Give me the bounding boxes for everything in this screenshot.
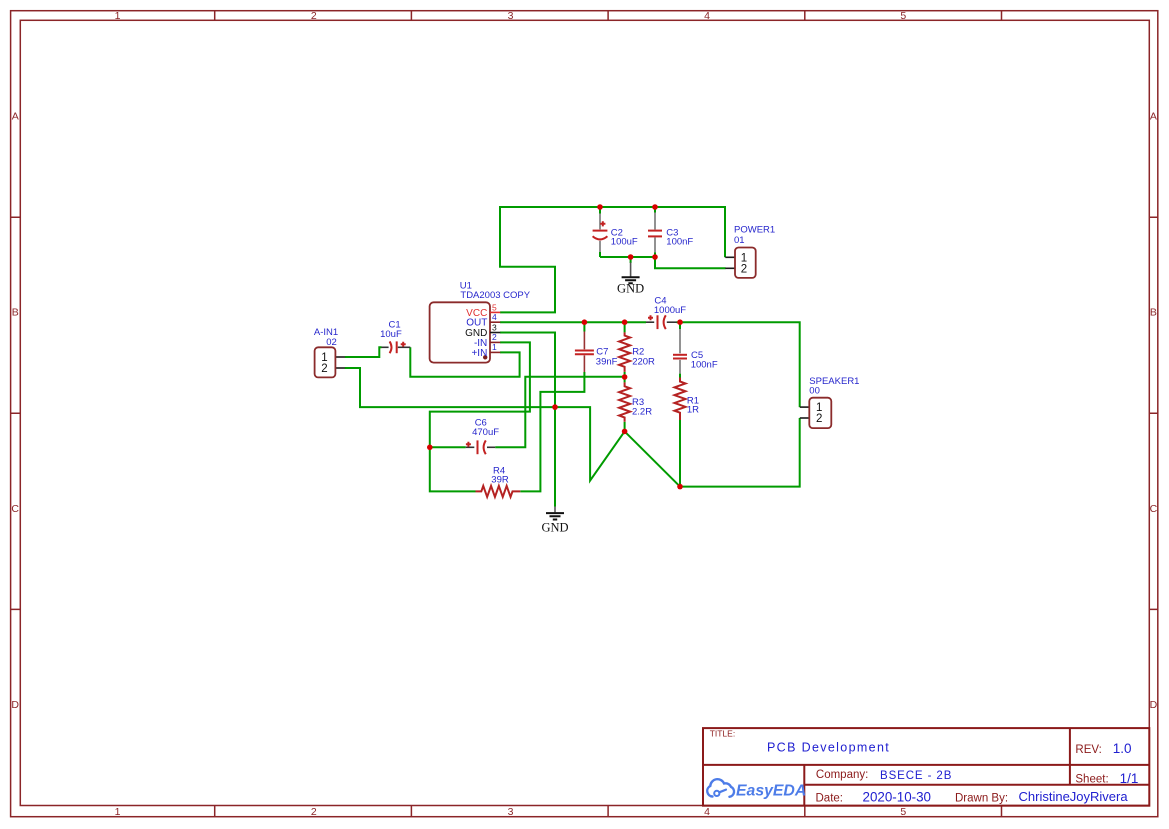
resistor R4 39R bbox=[476, 486, 521, 497]
wire diagonal R3 bottom to bottom node bbox=[625, 431, 680, 486]
junction dot GND rail bbox=[552, 404, 558, 410]
junction dot C3 top bbox=[652, 204, 658, 210]
U1 pin 2 lead -IN bbox=[490, 341, 500, 343]
svg-text:PCB Development: PCB Development bbox=[767, 740, 890, 754]
capacitor C3 100nF bbox=[648, 213, 662, 253]
svg-text:GND: GND bbox=[541, 521, 568, 535]
svg-text:TITLE:: TITLE: bbox=[710, 729, 736, 739]
wire OUT net U1 pin4 to C4 left bbox=[500, 321, 646, 323]
svg-text:01: 01 bbox=[734, 235, 745, 246]
IC U1 TDA2003 box bbox=[430, 302, 490, 362]
ground symbol GND bottom bbox=[541, 507, 568, 535]
svg-text:B: B bbox=[1150, 307, 1157, 319]
svg-text:02: 02 bbox=[326, 337, 337, 348]
svg-text:1.0: 1.0 bbox=[1113, 741, 1132, 756]
svg-text:D: D bbox=[11, 699, 19, 711]
ground symbol GND top bbox=[617, 263, 644, 296]
junction dot C4 right bbox=[677, 319, 683, 325]
title block outline bbox=[703, 728, 1149, 806]
svg-text:1: 1 bbox=[115, 806, 121, 818]
svg-text:5: 5 bbox=[900, 10, 906, 22]
svg-text:1: 1 bbox=[492, 342, 497, 352]
svg-text:4: 4 bbox=[704, 806, 710, 818]
wire VCC net U1 pin5 loop to top rail and POWER1 pin1 bbox=[500, 207, 725, 312]
resistor R3 2.2R bbox=[619, 382, 630, 421]
U1 pin 5 lead VCC bbox=[490, 311, 500, 313]
junction dot output bottom node bbox=[677, 484, 683, 490]
svg-text:A: A bbox=[12, 111, 19, 123]
capacitor C7 39nF bbox=[575, 332, 594, 373]
svg-text:BSECE - 2B: BSECE - 2B bbox=[880, 770, 952, 782]
title block row line 2 bbox=[804, 784, 1149, 786]
svg-text:2: 2 bbox=[492, 332, 497, 342]
svg-text:10uF: 10uF bbox=[380, 329, 402, 340]
svg-text:2: 2 bbox=[321, 363, 327, 375]
svg-text:2.2R: 2.2R bbox=[632, 407, 652, 418]
svg-text:Drawn By:: Drawn By: bbox=[955, 792, 1008, 804]
svg-text:3: 3 bbox=[508, 10, 514, 22]
svg-text:39R: 39R bbox=[491, 475, 509, 486]
resistor R1 1R bbox=[675, 378, 686, 421]
capacitor C2 100uF polarized bbox=[593, 214, 608, 253]
svg-text:3: 3 bbox=[492, 322, 497, 332]
junction dot C2 top bbox=[597, 204, 603, 210]
wire A-IN1 pin2 to GND rail and diagonal to R3 bottom bbox=[345, 368, 625, 481]
junction dot R2-R3 bbox=[622, 374, 628, 380]
frame ticks left bbox=[11, 217, 21, 609]
connector A-IN1 bbox=[315, 347, 345, 377]
svg-text:A: A bbox=[1150, 111, 1157, 123]
svg-text:1R: 1R bbox=[687, 405, 699, 416]
wire C5 bottom to R1 top bbox=[679, 374, 681, 379]
wire A-IN1 pin1 to C1 left bbox=[345, 347, 382, 357]
svg-text:3: 3 bbox=[508, 806, 514, 818]
svg-text:2020-10-30: 2020-10-30 bbox=[863, 790, 932, 805]
svg-text:2: 2 bbox=[311, 806, 317, 818]
resistor R2 220R bbox=[619, 332, 630, 372]
wire C2 bottom to C3 bottom bbox=[600, 256, 655, 258]
wire R3 bottom stub bbox=[624, 422, 626, 432]
svg-text:4: 4 bbox=[492, 312, 497, 322]
svg-text:2: 2 bbox=[741, 263, 747, 275]
capacitor C1 10uF polarized bbox=[382, 341, 411, 353]
frame ticks bottom bbox=[215, 806, 1002, 817]
svg-text:5: 5 bbox=[492, 302, 497, 312]
junction dot C6 left bbox=[427, 445, 433, 451]
frame ticks top bbox=[215, 11, 1002, 21]
junction dot C3 bottom bbox=[652, 254, 658, 260]
svg-text:5: 5 bbox=[900, 806, 906, 818]
svg-text:00: 00 bbox=[809, 385, 820, 396]
svg-text:39nF: 39nF bbox=[596, 357, 618, 368]
U1 pin 4 lead OUT bbox=[490, 321, 500, 323]
wire C7 bottom to R4 right bbox=[520, 372, 584, 491]
svg-text:2: 2 bbox=[816, 413, 822, 425]
wire U1 pin1 +IN to C1 right bbox=[410, 347, 519, 377]
svg-text:220R: 220R bbox=[632, 357, 655, 368]
junction dot C7 top bbox=[582, 319, 588, 325]
svg-text:4: 4 bbox=[704, 10, 710, 22]
wire R2 top stub bbox=[624, 322, 626, 332]
svg-text:Sheet:: Sheet: bbox=[1075, 773, 1108, 785]
svg-text:GND: GND bbox=[617, 282, 644, 296]
capacitor C5 100nF bbox=[673, 329, 687, 374]
connector SPEAKER1 bbox=[800, 398, 832, 428]
svg-text:100uF: 100uF bbox=[611, 237, 638, 248]
svg-text:D: D bbox=[1150, 699, 1158, 711]
wire C6 left stub bbox=[430, 446, 466, 448]
wire C3 bottom stub bbox=[654, 253, 656, 258]
title block divider logo bbox=[803, 765, 805, 806]
svg-text:REV:: REV: bbox=[1075, 744, 1101, 756]
wire C6 right up to R2-R3 junction bbox=[495, 377, 624, 448]
wire SPEAKER1 pin2 return to bottom node bbox=[680, 418, 800, 487]
svg-text:Company:: Company: bbox=[816, 769, 868, 781]
wire C4 right to SPEAKER1 pin1 bbox=[677, 322, 800, 407]
svg-text:470uF: 470uF bbox=[472, 427, 499, 438]
connector POWER1 bbox=[725, 248, 755, 278]
wire U1 pin2 -IN to C6 left and R4 left bbox=[430, 342, 530, 491]
junction dot R2 top bbox=[622, 319, 628, 325]
wire C7 top stub bbox=[583, 322, 585, 331]
U1 pin 1 lead +IN bbox=[490, 351, 500, 353]
wire R2 bottom stub bbox=[624, 372, 626, 377]
wire R1 bottom to bottom node bbox=[679, 420, 681, 487]
capacitor C4 1000uF polarized bbox=[646, 315, 677, 329]
svg-text:TDA2003 COPY: TDA2003 COPY bbox=[460, 290, 530, 301]
wire U1 pin3 GND to ground symbol bbox=[500, 333, 555, 507]
svg-text:1: 1 bbox=[115, 10, 121, 22]
title block row line 1 bbox=[703, 764, 1149, 766]
svg-text:C: C bbox=[1150, 503, 1158, 515]
EasyEDA logo cloud bbox=[707, 779, 734, 797]
wire C3 top stub bbox=[654, 207, 656, 213]
U1 pin 3 lead GND bbox=[490, 332, 500, 334]
svg-text:1/1: 1/1 bbox=[1120, 771, 1139, 786]
junction dot GND tap top bbox=[628, 254, 634, 260]
wire stub to top GND symbol bbox=[630, 257, 632, 263]
U1 polarity dot bbox=[483, 355, 487, 359]
wire C2 top stub bbox=[599, 207, 601, 214]
junction dot R3 bottom bbox=[622, 429, 628, 435]
frame ticks right bbox=[1149, 217, 1158, 609]
wire C5 top stub bbox=[679, 322, 681, 329]
wire R3 top stub bbox=[624, 377, 626, 382]
title block divider rev bbox=[1069, 728, 1071, 785]
svg-text:C: C bbox=[11, 503, 19, 515]
svg-text:+IN: +IN bbox=[471, 348, 487, 359]
svg-text:100nF: 100nF bbox=[666, 237, 693, 248]
svg-text:EasyEDA: EasyEDA bbox=[736, 782, 806, 799]
svg-text:2: 2 bbox=[311, 10, 317, 22]
svg-text:B: B bbox=[12, 307, 19, 319]
svg-text:1000uF: 1000uF bbox=[654, 305, 686, 316]
svg-text:100nF: 100nF bbox=[691, 359, 718, 370]
svg-text:ChristineJoyRivera: ChristineJoyRivera bbox=[1019, 789, 1129, 804]
capacitor C6 470uF polarized bbox=[466, 440, 496, 454]
wire C2 bottom stub bbox=[599, 252, 601, 257]
wire C3 bottom to POWER1 pin2 bbox=[655, 257, 726, 268]
svg-text:Date:: Date: bbox=[816, 792, 844, 804]
